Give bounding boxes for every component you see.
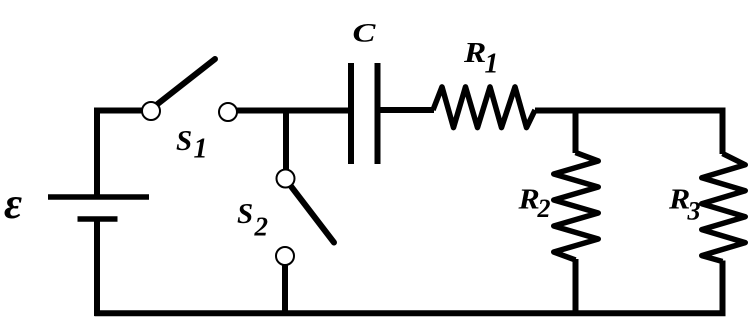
wire S2 branch top (junction to switch)	[283, 108, 289, 172]
svg-text:1: 1	[485, 49, 499, 80]
svg-text:3: 3	[687, 197, 701, 226]
wire S2 branch bottom (switch to bottom wire)	[282, 265, 288, 316]
resistor R2 (with leads)	[554, 108, 599, 316]
resistor R3 (with leads)	[702, 108, 746, 316]
battery EMF source	[48, 197, 149, 316]
wire left vertical + top-left horizontal (battery + terminal to switch S1)	[97, 111, 146, 198]
switch S2	[276, 170, 334, 266]
svg-text:2: 2	[254, 212, 269, 242]
switch S1	[142, 59, 237, 121]
wire from capacitor C to resistor R1	[380, 107, 434, 113]
bottom wire	[95, 310, 726, 316]
wire from R1 to top-right corner	[535, 108, 726, 114]
wire from S1 right contact to capacitor C	[237, 108, 348, 114]
svg-text:1: 1	[194, 134, 208, 165]
svg-text:S: S	[237, 198, 253, 230]
svg-text:ε: ε	[4, 179, 22, 228]
label R2	[517, 183, 550, 223]
capacitor C	[351, 63, 378, 164]
resistor R1	[433, 87, 535, 128]
svg-text:C: C	[353, 18, 377, 47]
svg-text:2: 2	[537, 194, 551, 223]
label S1	[176, 125, 208, 165]
label R1	[463, 36, 499, 79]
svg-text:R: R	[463, 36, 486, 68]
label S2	[237, 198, 268, 242]
label R3	[668, 183, 701, 226]
svg-text:S: S	[176, 125, 192, 157]
svg-text:R: R	[517, 183, 539, 215]
